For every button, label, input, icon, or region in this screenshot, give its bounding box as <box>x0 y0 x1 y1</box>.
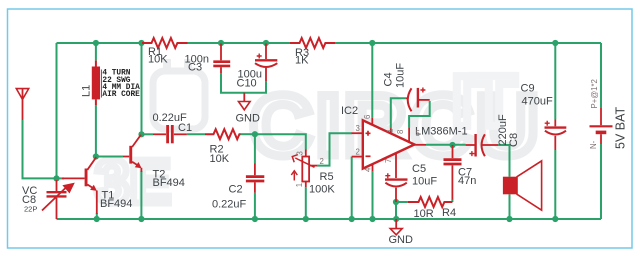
svg-text:C4: C4 <box>383 72 395 86</box>
svg-text:GND: GND <box>236 112 261 124</box>
wire top rail mid segment <box>188 42 291 44</box>
wire T2 emitter to rail <box>140 171 142 219</box>
node top rail C9 <box>552 40 558 46</box>
node rail C9 <box>552 216 558 222</box>
svg-text:5: 5 <box>416 129 421 138</box>
wire battery top <box>600 43 602 107</box>
label T1 <box>100 190 132 211</box>
capacitor C3 <box>213 44 230 74</box>
svg-text:8: 8 <box>396 130 405 134</box>
wire bottom rail <box>57 218 602 220</box>
wire node to R5 pin3 <box>255 134 306 149</box>
capacitor C7 <box>444 145 462 200</box>
label C9 value <box>521 83 553 108</box>
svg-text:C10: C10 <box>237 77 257 89</box>
svg-text:L1: L1 <box>81 85 93 97</box>
label R4 value <box>414 207 457 220</box>
capacitor C8 220uF <box>466 134 499 157</box>
wire T2 collector node up to rail <box>141 43 143 134</box>
node R2 C2 R5 <box>252 131 258 137</box>
capacitor C5 <box>385 173 408 202</box>
svg-text:C5: C5 <box>412 163 426 175</box>
resistor R1 <box>142 38 188 48</box>
label C8 220uF value <box>497 114 520 147</box>
inductor L1 <box>92 61 102 106</box>
wire IC2 pin1 to C4 <box>391 98 406 128</box>
node top rail IC2 pin6 <box>369 40 375 46</box>
node T1 collector L1 <box>93 153 99 159</box>
wire T2 collector node to C1 <box>142 133 154 135</box>
op-amp U1 LM386 IC2 <box>352 118 427 178</box>
capacitor C4 <box>406 88 430 112</box>
label C10 value <box>237 69 262 90</box>
resistor R2 <box>205 129 241 139</box>
wire node down to C2 <box>254 134 256 163</box>
ground GND1 <box>239 93 251 110</box>
svg-text:C8: C8 <box>508 133 520 147</box>
capacitor C2 <box>246 164 264 193</box>
node top rail T2 branch <box>138 40 144 46</box>
svg-text:BF494: BF494 <box>153 177 185 189</box>
svg-text:IC2: IC2 <box>341 105 358 117</box>
speaker LS1 <box>503 161 542 210</box>
wire R5 pin2 to IC2 pin3 <box>317 133 352 165</box>
label C2 value <box>212 184 247 211</box>
label R5 value <box>309 171 335 196</box>
wire top rail left segment <box>57 42 143 44</box>
svg-text:C9: C9 <box>521 83 535 95</box>
svg-text:3: 3 <box>296 151 305 155</box>
potentiometer R5 <box>291 150 317 188</box>
wire L1 bottom to T1 collector node <box>95 105 97 156</box>
wire speaker to rail <box>509 194 511 219</box>
node rail GND <box>393 216 399 222</box>
svg-text:3: 3 <box>356 124 360 133</box>
svg-text:5V BAT: 5V BAT <box>614 106 628 149</box>
node top rail L1 <box>93 40 99 46</box>
svg-text:R5: R5 <box>320 171 334 183</box>
antenna <box>16 89 28 120</box>
capacitor C9 <box>545 119 567 150</box>
node antenna VC <box>53 175 59 181</box>
node rail IC2 pin4 <box>369 216 375 222</box>
wire battery bottom right edge <box>600 144 602 219</box>
svg-text:BF494: BF494 <box>100 198 132 210</box>
wire C1 to R2 <box>187 133 205 135</box>
resistor R4 <box>408 197 453 207</box>
wire R2 to node <box>240 133 255 135</box>
svg-text:AIR CORE: AIR CORE <box>102 91 140 99</box>
svg-text:10R: 10R <box>414 208 434 220</box>
node output pin5 <box>449 142 455 148</box>
node top rail C10 <box>263 40 269 46</box>
wire antenna stem <box>23 120 57 178</box>
wire L1 top <box>95 43 97 61</box>
label R3 value <box>295 47 309 67</box>
node top rail C3 <box>218 40 224 46</box>
svg-text:1: 1 <box>385 129 394 133</box>
wire C3 bottom gnd link <box>221 73 266 92</box>
battery BT1 5V <box>590 107 613 144</box>
wire T1 base <box>58 177 65 179</box>
svg-text:1K: 1K <box>295 55 309 67</box>
svg-text:22P: 22P <box>24 205 37 214</box>
node rail T2 emitter <box>138 216 144 222</box>
label C4 value <box>383 63 407 88</box>
wire C5 junction down to rail <box>395 202 397 219</box>
transistor T2 <box>123 135 142 172</box>
svg-text:2: 2 <box>320 157 324 166</box>
node rail R5 <box>303 216 309 222</box>
wire T1 collector node to T2 base <box>96 156 123 158</box>
node rail IC2 pin2 <box>349 216 355 222</box>
wire IC2 pin6 to rail <box>371 43 373 118</box>
wire T1 emitter to rail <box>96 213 98 219</box>
wire IC2 pin2 to rail <box>351 157 353 219</box>
resistor R3 <box>290 38 335 48</box>
variable capacitor VC C8 <box>42 180 75 219</box>
wire left edge vertical <box>56 43 58 178</box>
svg-text:0.22uF: 0.22uF <box>212 199 247 211</box>
svg-text:10K: 10K <box>148 54 168 66</box>
svg-text:1: 1 <box>295 183 304 187</box>
label L1 note <box>102 70 140 100</box>
svg-text:7: 7 <box>384 159 393 163</box>
label R1 value <box>148 46 168 66</box>
wire IC2 pin4 to rail <box>372 171 374 219</box>
watermark <box>95 59 542 217</box>
label R2 value <box>210 144 230 166</box>
node rail speaker <box>506 216 512 222</box>
svg-text:470uF: 470uF <box>522 96 553 108</box>
label C3 value <box>185 53 209 73</box>
svg-text:100K: 100K <box>309 184 335 196</box>
node T2 collector C1 <box>138 131 144 137</box>
wire R5 pin1 to rail <box>305 187 307 219</box>
svg-text:10K: 10K <box>210 153 230 165</box>
svg-text:P+@1*2: P+@1*2 <box>590 79 599 108</box>
svg-text:10uF: 10uF <box>395 63 407 88</box>
svg-text:C3: C3 <box>188 61 202 73</box>
svg-text:C1: C1 <box>178 122 192 134</box>
wire C9 top <box>554 43 556 119</box>
wire top rail right segment <box>335 42 601 44</box>
wire C2 to rail <box>254 193 256 219</box>
svg-text:GND: GND <box>389 234 414 246</box>
svg-text:10uF: 10uF <box>412 176 437 188</box>
svg-text:C2: C2 <box>229 184 243 196</box>
wire R4 to C7 bottom <box>451 199 453 202</box>
node rail T1 emitter <box>94 216 100 222</box>
label C7 value <box>458 167 476 188</box>
label C5 value <box>412 163 437 188</box>
svg-text:4: 4 <box>363 167 372 172</box>
node C5 R4 <box>393 199 399 205</box>
capacitor C10 <box>255 44 277 82</box>
node rail C2 <box>252 216 258 222</box>
svg-text:R4: R4 <box>442 207 456 219</box>
wire C5 junction to R4 <box>396 201 408 203</box>
svg-text:6: 6 <box>363 115 372 119</box>
wire IC2 pin5 output <box>426 144 466 146</box>
label C1 value <box>153 112 193 134</box>
wire C8 out to speaker <box>498 145 509 177</box>
svg-text:N-: N- <box>589 140 598 149</box>
transistor T1 <box>62 157 97 214</box>
label VC C8 22P <box>22 185 37 214</box>
ground GND2 <box>390 219 402 235</box>
wire C4 to IC2 pin8 <box>409 101 430 128</box>
svg-text:2: 2 <box>356 148 360 157</box>
label T2 <box>153 169 185 190</box>
svg-text:LM386M-1: LM386M-1 <box>415 126 468 138</box>
wire C9 bottom to rail <box>554 150 556 219</box>
capacitor C1 <box>153 125 187 143</box>
svg-text:47n: 47n <box>458 175 476 187</box>
